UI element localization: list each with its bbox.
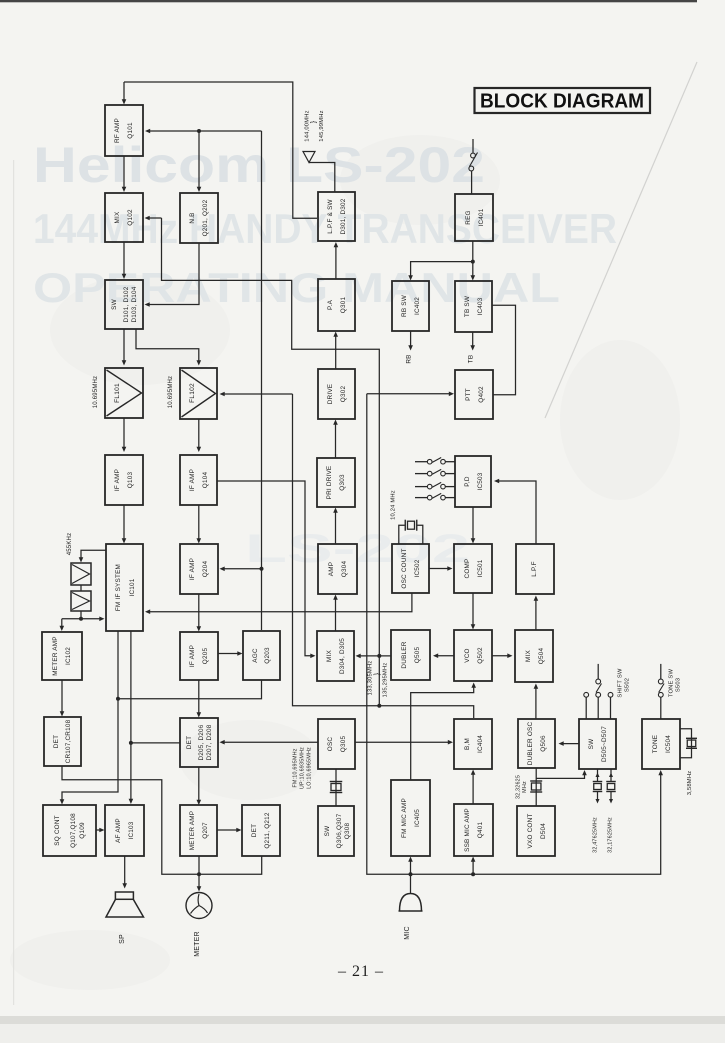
svg-text:UP:10,6935MHz: UP:10,6935MHz xyxy=(300,747,306,789)
crystal 3.58MHz at TONE xyxy=(680,729,697,758)
wire DRIVE to P.A xyxy=(333,332,338,370)
wire AF AMP to speaker xyxy=(122,856,127,889)
svg-text:MIX: MIX xyxy=(326,649,333,661)
svg-text:Q109: Q109 xyxy=(79,822,86,839)
wire OSC Q305 to DET D205 right input xyxy=(220,740,319,745)
crystal 32.17625MHz under SW xyxy=(606,769,616,804)
junction trunk to Q204 xyxy=(260,567,264,571)
svg-text:IC401: IC401 xyxy=(478,208,485,226)
svg-text:10,24 MHz: 10,24 MHz xyxy=(391,490,397,520)
crystal 10.24MHz xyxy=(399,520,423,544)
svg-text:SW: SW xyxy=(588,738,595,749)
junction DUBLER line and TX trunk xyxy=(377,654,381,658)
block MIX D304 D305 xyxy=(317,631,354,681)
svg-text:D207, D208: D207, D208 xyxy=(206,724,213,760)
svg-text:PTT: PTT xyxy=(465,388,472,401)
wire L.P.F to P.D right input xyxy=(494,479,536,544)
svg-text:Q303: Q303 xyxy=(339,474,346,491)
wire bus to SSB MIC AMP bottom xyxy=(471,857,476,875)
wire filters junction to IC101 left input xyxy=(60,611,105,631)
svg-text:B,M: B,M xyxy=(464,738,471,750)
block SQ CONT Q107-Q109 xyxy=(43,805,96,856)
svg-text:455KHz: 455KHz xyxy=(67,533,73,556)
block PTT Q402 xyxy=(455,370,493,419)
block AGC Q203 xyxy=(243,631,280,680)
svg-text:D504: D504 xyxy=(540,823,547,839)
wire B.M trunk to FL102 right input xyxy=(220,392,474,718)
wire OSC Q305 to B.M left input xyxy=(355,740,453,745)
svg-text:10.695MHz: 10.695MHz xyxy=(93,376,99,408)
svg-text:COMP: COMP xyxy=(464,559,471,579)
junction REG split xyxy=(471,260,475,264)
svg-text:AGC: AGC xyxy=(252,648,259,663)
shift switch S502 xyxy=(584,664,613,719)
wire FL102 to IF AMP Q104 xyxy=(197,419,202,452)
wire METER AMP Q207 bottom to junction xyxy=(198,856,200,874)
svg-text:METER AMP: METER AMP xyxy=(189,811,196,850)
label SHIFT SW S502 xyxy=(618,668,631,698)
svg-text:Q502: Q502 xyxy=(477,647,484,664)
power switch above REG xyxy=(469,139,478,194)
block MIX Q102 xyxy=(105,193,143,242)
wire DET D205 to METER AMP Q207 xyxy=(197,767,202,805)
svg-text:IC404: IC404 xyxy=(477,735,484,753)
svg-text:32,32625: 32,32625 xyxy=(516,775,522,799)
svg-text:– 21 –: – 21 – xyxy=(337,963,384,980)
wire OSC COUNT to IC101 right input xyxy=(145,593,412,614)
wire MIX to SW xyxy=(122,242,127,279)
block N.B Q201 Q202 xyxy=(180,193,218,243)
wire N.B to SW right input xyxy=(145,243,200,307)
svg-text:S503: S503 xyxy=(676,678,682,692)
block SW D101-D104 xyxy=(105,280,143,329)
wire DUBLER to MIX D304 right input xyxy=(356,654,392,659)
svg-text:Q102: Q102 xyxy=(127,209,134,226)
wire antenna-switch to RF AMP top xyxy=(122,82,317,218)
svg-text:Q505: Q505 xyxy=(414,647,421,664)
block DUBLER Q505 xyxy=(391,630,430,680)
svg-text:FL101: FL101 xyxy=(114,383,121,403)
block COMP IC501 xyxy=(454,544,492,593)
block RF AMP Q101 xyxy=(105,105,143,156)
wire PRI DRIVE to DRIVE xyxy=(333,420,338,459)
block DRIVE Q302 xyxy=(318,369,355,419)
block AF AMP IC103 xyxy=(105,805,144,856)
wire Q205 to AGC xyxy=(218,651,243,656)
wire RB SW output RB xyxy=(408,331,413,351)
crystal 32.47625MHz under SW xyxy=(593,769,603,804)
label TONE SW S503 xyxy=(669,669,682,698)
svg-text:PRI DRIVE: PRI DRIVE xyxy=(326,466,333,500)
antenna xyxy=(303,152,335,193)
crystal 32.32625MHz with VXO CONT xyxy=(530,768,542,806)
wire VCO to MIX Q504 xyxy=(492,653,513,658)
svg-text:DUBLER OSC: DUBLER OSC xyxy=(527,722,534,766)
filter FL102 xyxy=(180,368,217,419)
svg-text:IC103: IC103 xyxy=(128,821,135,839)
label 133.305MHz-135.295MHz xyxy=(368,661,389,698)
junction B.M trunk xyxy=(377,704,381,708)
wire Q205 to DET D205 xyxy=(197,680,202,718)
crystal FM/UP/LO between OSC Q305 and SW Q306 xyxy=(330,769,343,806)
svg-text:Q207: Q207 xyxy=(202,822,209,839)
svg-text:METER AMP: METER AMP xyxy=(52,636,59,675)
wire SW D505 to DUBLER OSC xyxy=(559,741,580,746)
wire Q103 to IC101 xyxy=(122,505,127,544)
svg-text:Q103: Q103 xyxy=(127,472,134,489)
svg-text:3,58MHz: 3,58MHz xyxy=(687,771,693,796)
wire MIC to FM MIC AMP xyxy=(408,857,413,894)
svg-text:TB: TB xyxy=(468,355,475,364)
svg-text:CR107,CR108: CR107,CR108 xyxy=(65,719,72,763)
svg-text:D301, D302: D301, D302 xyxy=(340,198,347,234)
wire TB SW output TB xyxy=(470,332,475,351)
wire AMP Q304 to PRI DRIVE xyxy=(333,508,338,545)
svg-text:IC503: IC503 xyxy=(477,472,484,490)
svg-text:IC504: IC504 xyxy=(665,735,672,753)
junction MIC bus xyxy=(409,872,413,876)
wire IC101 right trunk to AF AMP xyxy=(129,631,134,804)
svg-text:FM MIC AMP: FM MIC AMP xyxy=(401,798,408,838)
svg-text:IC402: IC402 xyxy=(414,297,421,315)
svg-text:S502: S502 xyxy=(625,678,631,692)
svg-text:IF AMP: IF AMP xyxy=(114,469,121,491)
wire junction to N.B top xyxy=(197,131,202,192)
wire SW to FL102 xyxy=(136,329,201,366)
block PRI DRIVE Q303 xyxy=(317,458,355,507)
svg-text:SHIFT SW: SHIFT SW xyxy=(618,668,624,698)
wire P.D to COMP xyxy=(471,507,476,544)
block RB SW IC402 xyxy=(392,281,429,331)
block VCO Q502 xyxy=(454,630,492,681)
top scan edge xyxy=(0,0,697,2)
svg-text:MIX: MIX xyxy=(525,649,532,661)
wire OSC COUNT to COMP xyxy=(429,566,453,571)
svg-text:SP: SP xyxy=(119,934,126,944)
svg-text:DET: DET xyxy=(186,736,193,749)
block LPF and SW D301 D302 xyxy=(318,192,355,241)
svg-text:P,D: P,D xyxy=(464,476,471,487)
junction meter tap xyxy=(197,872,201,876)
svg-text:VCO: VCO xyxy=(464,648,471,662)
block SW D505-D507 xyxy=(579,719,616,769)
wire between 455KHz filters xyxy=(80,585,82,591)
svg-text:BLOCK DIAGRAM: BLOCK DIAGRAM xyxy=(480,90,644,113)
block SW Q306-Q308 xyxy=(318,806,354,856)
svg-text:IC403: IC403 xyxy=(477,297,484,315)
svg-text:Q504: Q504 xyxy=(538,648,545,665)
wire METER AMP Q207 to DET Q211 xyxy=(217,828,242,833)
block MIX Q504 xyxy=(515,630,553,682)
wire DET CR107 to DET Q211 via bottom bus xyxy=(62,766,262,874)
title BLOCK DIAGRAM xyxy=(475,88,651,113)
svg-text:D101, D102: D101, D102 xyxy=(123,286,130,322)
svg-text:OSC COUNT: OSC COUNT xyxy=(401,548,408,588)
block VXO CONT D504 xyxy=(517,806,555,856)
wire mic line to PTT and bottom bus xyxy=(367,392,663,875)
svg-text:Q506: Q506 xyxy=(540,735,547,752)
svg-text:Q304: Q304 xyxy=(341,561,348,578)
svg-text:Q205: Q205 xyxy=(202,648,209,665)
meter symbol xyxy=(186,893,212,919)
svg-text:133,305MHz: 133,305MHz xyxy=(368,661,374,696)
svg-text:FM:10,695MHz: FM:10,695MHz xyxy=(293,748,299,787)
label 32.32625 MHz xyxy=(516,775,529,799)
wire junction to meter xyxy=(197,874,202,891)
wire RF AMP to MIX xyxy=(122,156,127,192)
svg-text:VXO CONT: VXO CONT xyxy=(527,814,534,849)
wire junction to DET D205 left edge xyxy=(131,742,180,744)
svg-text:OSC: OSC xyxy=(327,737,334,752)
junction AGC trunk xyxy=(116,697,120,701)
svg-text:TB SW: TB SW xyxy=(464,295,471,317)
svg-text:IF AMP: IF AMP xyxy=(189,645,196,667)
block DET Q211 Q212 xyxy=(242,805,280,856)
svg-text:Q308: Q308 xyxy=(344,823,351,840)
wire Q104 to Q204 xyxy=(197,505,202,544)
svg-text:RF AMP: RF AMP xyxy=(114,118,121,143)
svg-text:IF AMP: IF AMP xyxy=(189,558,196,580)
svg-text:SSB MIC AMP: SSB MIC AMP xyxy=(464,808,471,852)
block FM IF SYSTEM IC101 xyxy=(106,544,143,631)
svg-text:MIC: MIC xyxy=(404,926,411,939)
block DUBLER OSC Q506 xyxy=(518,719,555,768)
svg-text:Q104: Q104 xyxy=(202,472,209,489)
block TONE IC504 xyxy=(642,719,680,769)
svg-text:L.P.F: L.P.F xyxy=(531,561,538,576)
svg-text:32,17625MHz: 32,17625MHz xyxy=(608,817,614,853)
label 144.00MHz-145.99MHz xyxy=(305,110,326,141)
wire AGC bottom to left trunk xyxy=(118,680,262,699)
wire FL101 to IF AMP Q103 xyxy=(122,418,127,452)
svg-text:145,99MHz: 145,99MHz xyxy=(319,110,325,141)
svg-text:}: } xyxy=(311,120,318,123)
wire METER AMP IC102 to DET CR107 xyxy=(60,680,65,717)
block TB SW IC403 xyxy=(455,281,492,332)
label FM UP LO frequencies xyxy=(293,747,313,789)
block AMP Q304 xyxy=(318,544,357,594)
junction filters tee xyxy=(79,617,83,621)
junction at NB drop xyxy=(197,129,201,133)
block IF AMP Q204 xyxy=(180,544,218,594)
svg-text:Helicom LS-202: Helicom LS-202 xyxy=(33,137,485,193)
block DET CR107 CR108 xyxy=(44,717,81,766)
wire trunk to IF AMP Q204 right input xyxy=(220,567,262,572)
wire Q104 right to MIX D304 left input xyxy=(217,481,316,658)
wire trunk to RF AMP right input xyxy=(145,129,262,630)
svg-text:TONE: TONE xyxy=(652,735,659,753)
svg-text:Q203: Q203 xyxy=(264,647,271,664)
svg-text:Q305: Q305 xyxy=(340,736,347,753)
left scan edge xyxy=(13,160,14,1005)
svg-text:MIX: MIX xyxy=(114,211,121,223)
channel switches at P.D xyxy=(415,458,455,500)
svg-text:IC501: IC501 xyxy=(477,559,484,577)
wire P.A to LPF and SW xyxy=(334,242,339,279)
svg-text:D505~D507: D505~D507 xyxy=(601,726,608,762)
svg-text:REG: REG xyxy=(465,210,472,224)
block OSC Q305 xyxy=(318,719,355,769)
block P.A Q301 xyxy=(318,279,355,331)
speaker SP xyxy=(106,892,144,917)
svg-text:AMP: AMP xyxy=(328,562,335,576)
svg-text:SQ CONT: SQ CONT xyxy=(54,815,61,846)
svg-text:DUBLER: DUBLER xyxy=(401,641,408,668)
tone switch S503 xyxy=(658,664,664,719)
svg-text:AF AMP: AF AMP xyxy=(115,818,122,843)
scan streak diagonal xyxy=(545,62,697,418)
svg-text:LO:10,6965MHz: LO:10,6965MHz xyxy=(307,747,313,789)
svg-text:Q101: Q101 xyxy=(127,122,134,139)
svg-text:144,00MHz: 144,00MHz xyxy=(305,110,311,141)
wire TX loop to MIX right input xyxy=(145,216,380,706)
svg-text:IC405: IC405 xyxy=(414,809,421,827)
wire TB SW to PTT right loop xyxy=(492,305,516,394)
wire Q204 to Q205 xyxy=(197,594,202,632)
wire DUBLER OSC to MIX Q504 xyxy=(534,684,539,720)
paper mottling xyxy=(10,135,680,990)
wire IC101 left to 455KHz filters xyxy=(79,550,106,562)
svg-text:Q211, Q212: Q211, Q212 xyxy=(264,812,271,849)
svg-text:IC102: IC102 xyxy=(65,647,72,665)
svg-text:Q107,Q108: Q107,Q108 xyxy=(70,813,77,848)
wire VCO to DUBLER xyxy=(433,653,454,658)
ceramic filter 455KHz upper xyxy=(71,563,91,585)
block L.P.F xyxy=(516,544,554,594)
svg-text:P.A: P.A xyxy=(327,299,334,310)
wire SQ CONT to AF AMP xyxy=(96,828,105,833)
svg-text:10.695MHz: 10.695MHz xyxy=(168,376,174,408)
svg-text:D103, D104: D103, D104 xyxy=(131,286,138,322)
svg-text:SW: SW xyxy=(324,825,331,836)
svg-text:DET: DET xyxy=(53,735,60,748)
wire MIX Q504 to L.P.F xyxy=(534,596,539,631)
wire MIX D304 to AMP Q304 xyxy=(333,595,338,632)
svg-text:N.B: N.B xyxy=(189,212,196,223)
svg-text:Q204: Q204 xyxy=(202,561,209,578)
svg-text:FL102: FL102 xyxy=(189,383,196,403)
svg-text:SW: SW xyxy=(111,298,118,309)
block REG IC401 xyxy=(455,194,493,241)
ceramic filter 455KHz lower xyxy=(71,591,91,611)
wire SW to FL101 xyxy=(122,329,127,366)
wire REG to RB SW and TB SW xyxy=(408,241,475,281)
svg-text:Q301: Q301 xyxy=(340,297,347,314)
filter FL101 xyxy=(105,368,143,418)
wire SSB MIC AMP to B.M xyxy=(471,770,476,805)
block METER AMP Q207 xyxy=(180,805,217,856)
svg-text:Q402: Q402 xyxy=(478,386,485,403)
block B.M IC404 xyxy=(454,719,492,769)
svg-text:IC502: IC502 xyxy=(414,559,421,577)
svg-text:D304, D305: D304, D305 xyxy=(339,638,346,674)
svg-text:IF AMP: IF AMP xyxy=(189,469,196,491)
svg-text:135,295MHz: 135,295MHz xyxy=(383,663,389,698)
block P.D IC503 xyxy=(455,456,491,507)
svg-text:MHz: MHz xyxy=(522,781,528,793)
svg-text:IC101: IC101 xyxy=(129,578,136,596)
block IF AMP Q205 xyxy=(180,632,218,680)
svg-text:D205, D206: D205, D206 xyxy=(198,724,205,760)
svg-text:DET: DET xyxy=(251,824,258,837)
junction SSB bus xyxy=(471,872,475,876)
wire IC101 left trunk to SQ CONT xyxy=(60,631,118,805)
block FM MIC AMP IC405 xyxy=(391,780,430,856)
block DET D205-D208 xyxy=(180,718,218,767)
svg-text:RB SW: RB SW xyxy=(401,294,408,317)
wire FM MIC AMP to VCO bottom xyxy=(411,683,476,781)
svg-text:FM IF SYSTEM: FM IF SYSTEM xyxy=(115,564,122,611)
svg-text:Q201, Q202: Q201, Q202 xyxy=(202,199,209,236)
block IF AMP Q103 xyxy=(105,455,143,505)
wire crystal node to SW D505 bottom xyxy=(536,770,587,778)
block METER AMP IC102 xyxy=(42,632,82,680)
svg-text:}: } xyxy=(374,672,381,675)
block SSB MIC AMP Q401 xyxy=(454,804,493,856)
microphone symbol xyxy=(399,894,423,912)
svg-text:DRIVE: DRIVE xyxy=(327,384,334,405)
svg-text:METER: METER xyxy=(194,931,201,957)
svg-text:32,47625MHz: 32,47625MHz xyxy=(593,817,599,853)
svg-text:Q306,Q307: Q306,Q307 xyxy=(336,813,343,848)
svg-text:RB: RB xyxy=(406,354,413,363)
svg-text:Q401: Q401 xyxy=(477,822,484,839)
block OSC COUNT IC502 xyxy=(392,544,429,593)
block IF AMP Q104 xyxy=(180,455,217,505)
svg-text:L.P.F & SW: L.P.F & SW xyxy=(327,198,334,233)
svg-text:Q302: Q302 xyxy=(340,386,347,403)
svg-text:TONE SW: TONE SW xyxy=(669,669,675,698)
wire COMP to VCO xyxy=(471,593,476,630)
junction DET tap xyxy=(129,741,133,745)
